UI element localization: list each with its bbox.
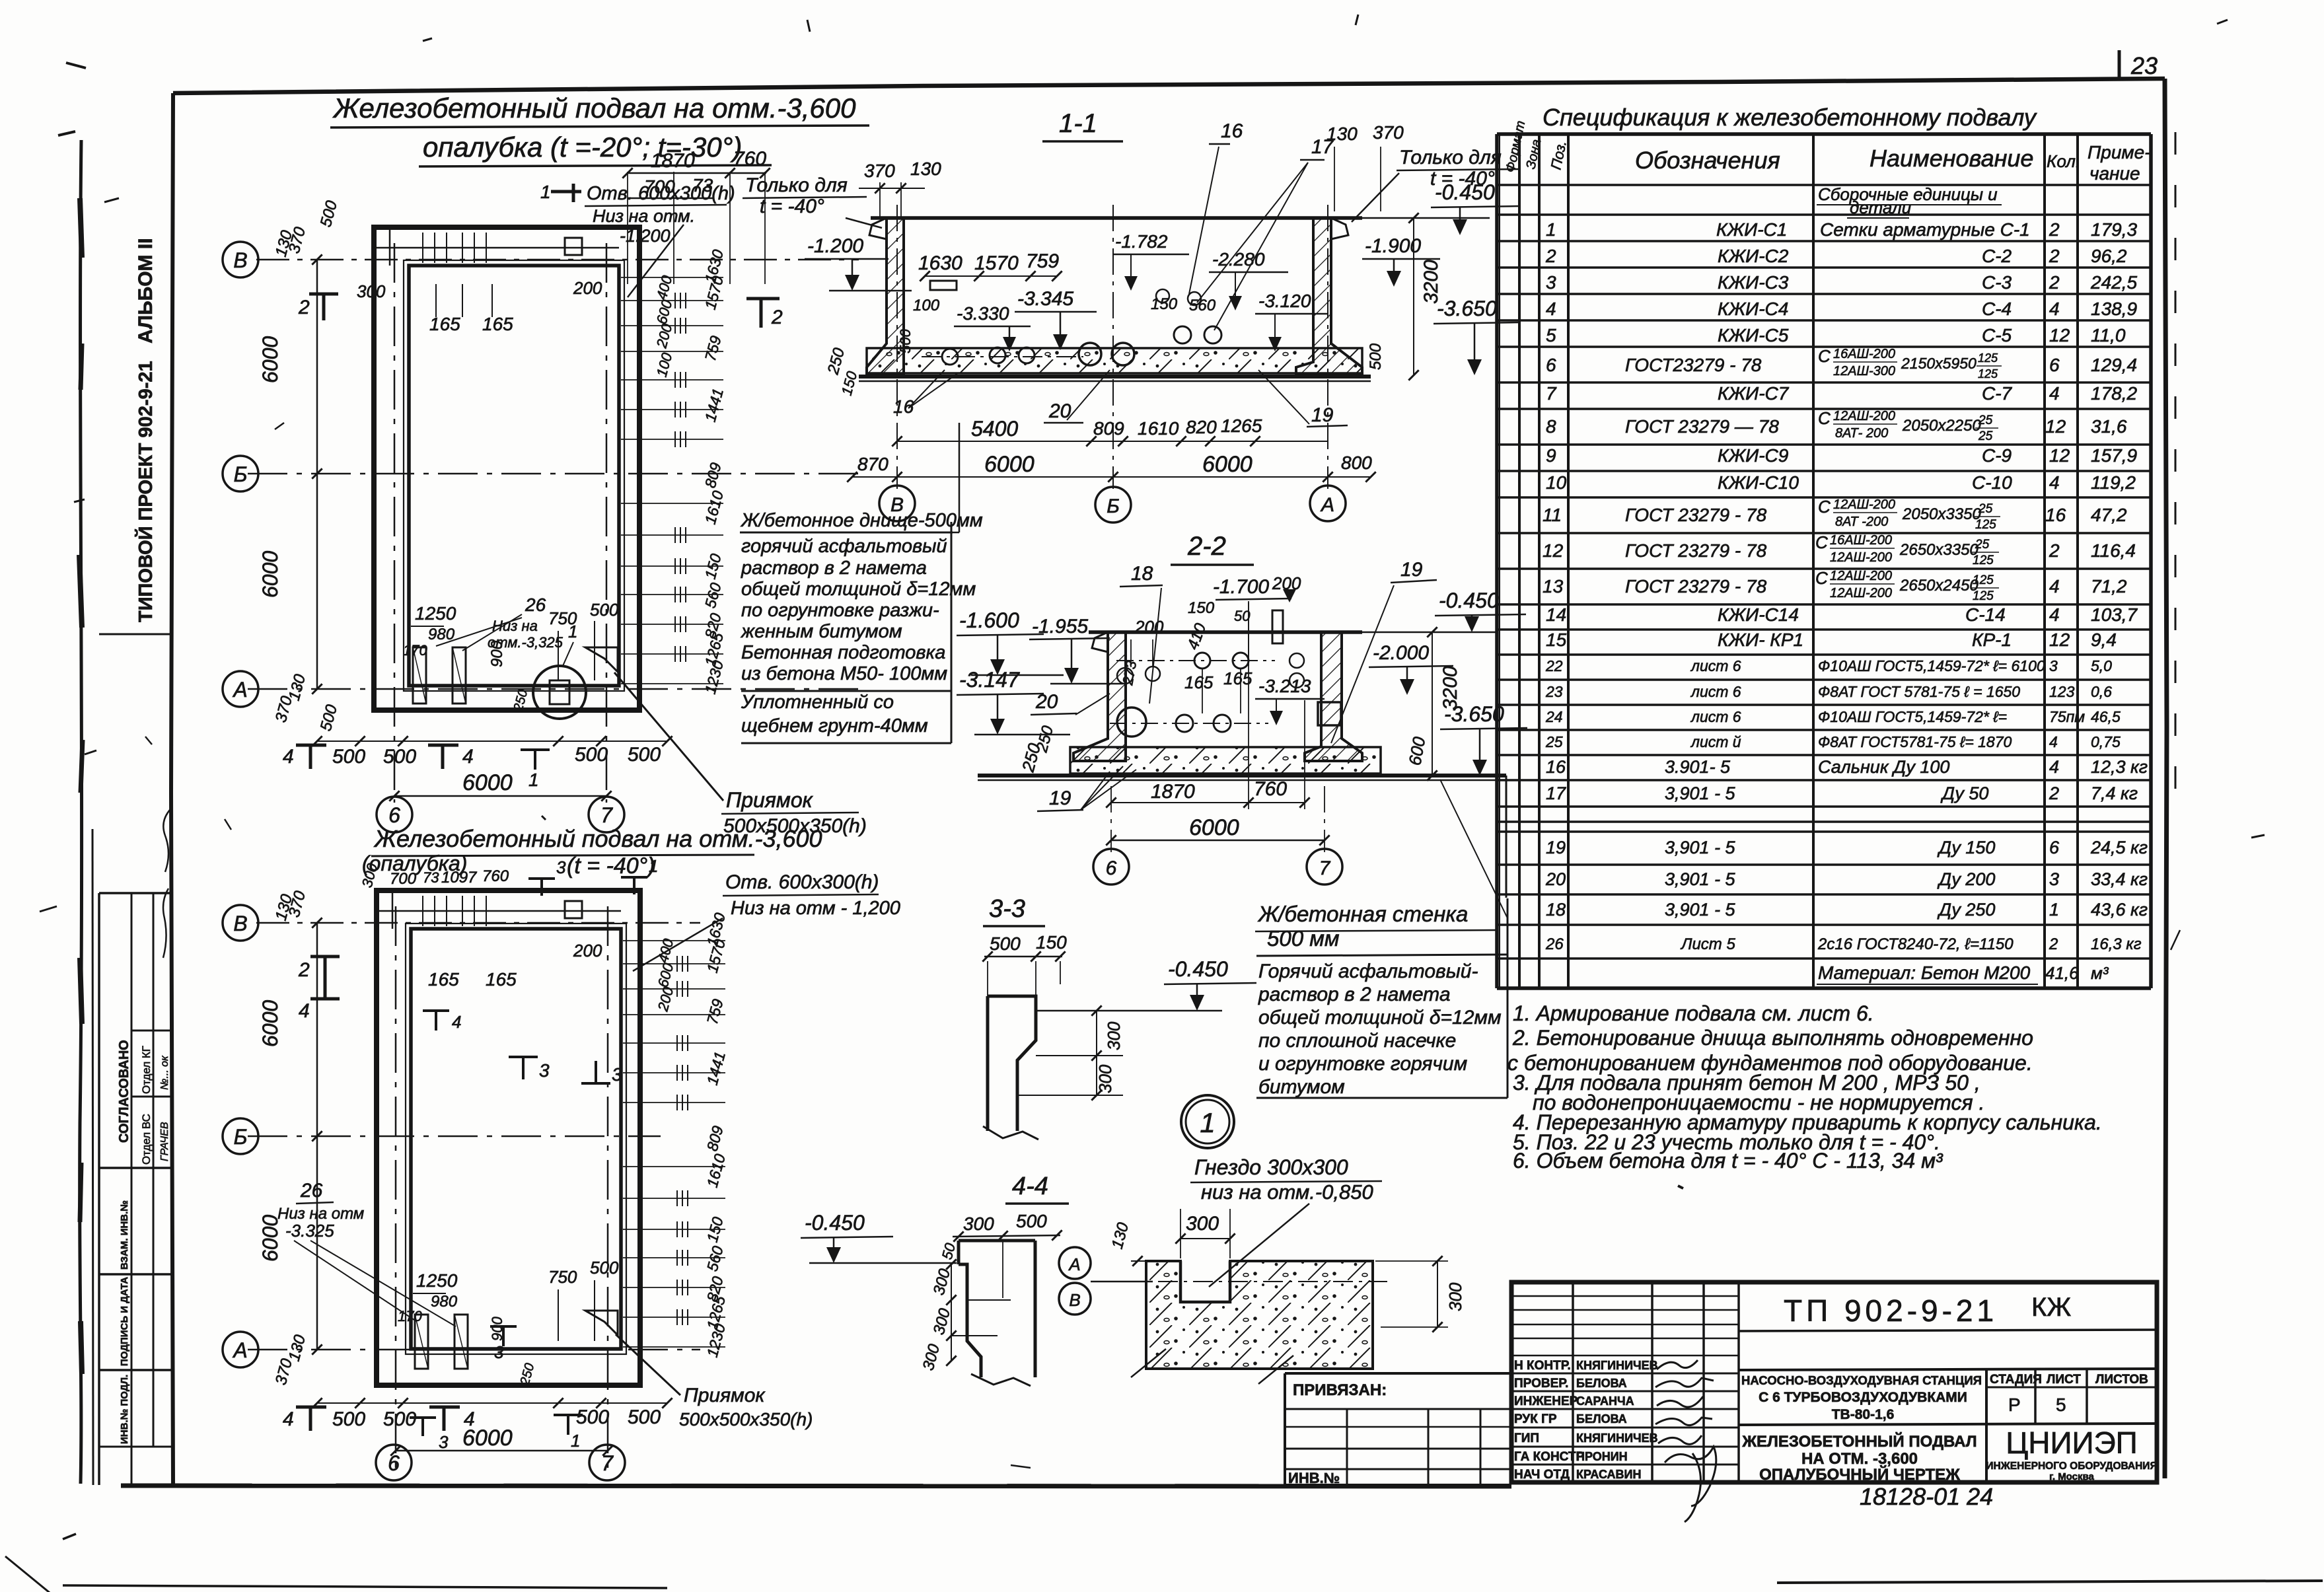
section 1-1 base line (859, 375, 1371, 379)
page frame top line (173, 79, 2165, 93)
svg-text:19: 19 (1311, 404, 1334, 426)
svg-text:ТП 902-9-21: ТП 902-9-21 (1784, 1293, 1998, 1328)
plan 2 outer wall (377, 890, 640, 1385)
svg-text:150: 150 (1151, 295, 1178, 313)
svg-text:300: 300 (963, 1213, 994, 1234)
svg-text:Лист 5: Лист 5 (1680, 935, 1735, 953)
svg-text:5,0: 5,0 (2091, 657, 2112, 674)
section 1-1 axis circle А (1310, 486, 1346, 521)
axis circle 7 plan2 bottom (589, 1445, 625, 1480)
section 2-2 dims 1870 760 (1111, 802, 1305, 803)
svg-text:6000: 6000 (1202, 452, 1253, 477)
svg-text:300: 300 (1186, 1213, 1219, 1235)
section 2-2 dash line interior (1110, 723, 1268, 724)
svg-text:2. Бетонирование днища: 2. Бетонирование днища выполнять одновре… (1512, 1026, 2033, 1050)
svg-text:-0.450: -0.450 (1439, 589, 1499, 612)
svg-text:9,4: 9,4 (2091, 630, 2117, 650)
svg-text:Ду 50: Ду 50 (1940, 783, 1988, 803)
plan 2 section marks 2 4 left (310, 957, 340, 982)
svg-text:100: 100 (913, 297, 940, 314)
svg-text:№... ок: №... ок (159, 1055, 170, 1090)
page frame right line (2165, 79, 2167, 1478)
svg-text:41,6: 41,6 (2045, 963, 2079, 983)
svg-text:17: 17 (1546, 783, 1566, 803)
svg-text:3: 3 (439, 1432, 449, 1452)
svg-text:лист й: лист й (1690, 733, 1741, 750)
svg-text:РУК ГР: РУК ГР (1514, 1412, 1557, 1426)
svg-text:300: 300 (1445, 1282, 1465, 1311)
svg-text:6000: 6000 (462, 1426, 513, 1451)
svg-text:18: 18 (1546, 900, 1566, 920)
svg-text:16АШ-200: 16АШ-200 (1833, 347, 1895, 361)
section 1-1 axis circle В (879, 486, 915, 521)
svg-text:Н КОНТР.: Н КОНТР. (1514, 1359, 1571, 1373)
svg-text:760: 760 (733, 148, 766, 170)
svg-text:16: 16 (2045, 505, 2066, 525)
svg-text:2: 2 (298, 297, 310, 318)
node 1 center dash line (1123, 1281, 1387, 1282)
svg-text:300: 300 (1095, 1064, 1115, 1093)
svg-text:6000: 6000 (258, 1000, 282, 1047)
svg-text:С: С (1818, 497, 1831, 517)
svg-text:щебнем грунт-40мм: щебнем грунт-40мм (741, 715, 928, 737)
plan 1 section mark 1 top (551, 184, 581, 202)
page frame left line (171, 93, 173, 1486)
svg-text:980: 980 (431, 1293, 458, 1311)
svg-text:760: 760 (1254, 778, 1287, 800)
axis circle В plan1 (223, 242, 258, 277)
svg-text:Уплотненный со: Уплотненный со (741, 692, 894, 713)
svg-text:0,75: 0,75 (2091, 733, 2121, 750)
plan 1 bottom dim 6000 (394, 795, 606, 797)
svg-text:КЖ: КЖ (2031, 1293, 2071, 1322)
plan 2 left dim 6000 lines (316, 923, 318, 1350)
svg-text:Ду 250: Ду 250 (1937, 900, 1995, 920)
svg-text:2: 2 (2049, 783, 2059, 803)
svg-text:2с16 ГОСТ8240-72, ℓ=1150: 2с16 ГОСТ8240-72, ℓ=1150 (1817, 935, 2014, 953)
svg-text:5: 5 (1546, 325, 1556, 345)
svg-text:С-9: С-9 (1982, 445, 2012, 466)
svg-text:370: 370 (1373, 122, 1404, 143)
node 1 circle badge (1181, 1095, 1234, 1148)
svg-text:раствор в 2 намета: раствор в 2 намета (741, 558, 927, 579)
svg-text:С-4: С-4 (1982, 299, 2012, 319)
svg-text:12АШ-200: 12АШ-200 (1830, 550, 1892, 565)
section 1-1 right wall hatched (1296, 218, 1362, 375)
svg-text:12: 12 (2045, 416, 2066, 437)
title block verticals (1572, 1282, 1574, 1482)
plan 1 axis line B (256, 259, 859, 261)
svg-text:3: 3 (556, 857, 566, 877)
svg-text:г. Москва: г. Москва (2049, 1471, 2094, 1482)
svg-text:7: 7 (600, 803, 613, 827)
svg-text:96,2: 96,2 (2091, 246, 2127, 266)
section 3-3 wall profile (988, 996, 1036, 1131)
svg-text:(t = -40°): (t = -40°) (567, 853, 655, 879)
svg-text:-3.325: -3.325 (285, 1221, 334, 1241)
svg-text:А: А (232, 1338, 247, 1362)
svg-text:165: 165 (486, 969, 517, 990)
wall note leader (1440, 779, 1507, 918)
svg-text:3: 3 (494, 1342, 504, 1362)
svg-text:горячий асфальтовый: горячий асфальтовый (741, 536, 947, 557)
spec table grid verticals (1495, 134, 1499, 988)
svg-text:170: 170 (403, 642, 427, 659)
svg-text:242,5: 242,5 (2090, 272, 2137, 293)
axis circle А plan2 (223, 1332, 258, 1367)
svg-text:2: 2 (2049, 935, 2058, 953)
svg-text:С-14: С-14 (1965, 604, 2006, 625)
svg-text:12: 12 (2049, 630, 2070, 650)
svg-text:Отв. 600х300(h): Отв. 600х300(h) (725, 871, 879, 893)
svg-text:лист 6: лист 6 (1690, 683, 1741, 700)
svg-text:В: В (233, 912, 247, 935)
svg-text:-0.450: -0.450 (805, 1211, 865, 1235)
svg-text:Низ на отм - 1,200: Низ на отм - 1,200 (731, 898, 900, 919)
svg-text:С: С (1815, 532, 1828, 552)
svg-text:6: 6 (2049, 838, 2060, 857)
svg-text:Сетки арматурные С-1: Сетки арматурные С-1 (1820, 219, 2030, 240)
svg-text:300: 300 (357, 281, 386, 301)
svg-text:3: 3 (2049, 869, 2059, 889)
svg-text:500 мм: 500 мм (1267, 926, 1339, 951)
svg-text:ГОСТ 23279 - 78: ГОСТ 23279 - 78 (1625, 540, 1767, 561)
side stamp ВЗАМ.ИНВ.№ cell (99, 1167, 172, 1169)
svg-text:170: 170 (398, 1308, 422, 1324)
bottom-right paper edge line (1777, 1581, 2323, 1583)
svg-text:5400: 5400 (971, 417, 1018, 441)
svg-text:73: 73 (423, 869, 439, 886)
svg-text:200: 200 (1134, 617, 1164, 637)
frame bottom-left long line (121, 1486, 1511, 1486)
svg-text:С-2: С-2 (1982, 246, 2012, 266)
svg-text:Горячий асфальтовый-: Горячий асфальтовый- (1258, 960, 1478, 982)
svg-text:Низ на отм: Низ на отм (277, 1205, 364, 1223)
svg-text:12: 12 (2049, 325, 2070, 345)
svg-text:НАЧ ОТД: НАЧ ОТД (1514, 1468, 1570, 1482)
svg-text:из бетона М50- 100мм: из бетона М50- 100мм (741, 663, 947, 684)
svg-text:Отдел КГ: Отдел КГ (140, 1046, 153, 1094)
svg-text:13: 13 (1543, 576, 1564, 597)
svg-text:10: 10 (1546, 472, 1567, 493)
axis circle В plan2 (223, 905, 258, 941)
plan 1 bottom-left pit rectangles (413, 647, 426, 704)
section 2-2 base line (978, 774, 1506, 778)
svg-text:47,2: 47,2 (2091, 505, 2127, 525)
svg-text:26: 26 (1545, 935, 1564, 953)
section 1-1 section mark 2 left (746, 299, 780, 328)
svg-text:15: 15 (1546, 630, 1567, 650)
svg-text:Ф8АТ ГОСТ5781-75 ℓ= 1870: Ф8АТ ГОСТ5781-75 ℓ= 1870 (1818, 733, 2012, 750)
svg-text:ГОСТ 23279 - 78: ГОСТ 23279 - 78 (1625, 576, 1767, 597)
svg-text:116,4: 116,4 (2091, 540, 2136, 561)
svg-text:760: 760 (482, 867, 509, 885)
svg-text:12: 12 (1543, 540, 1564, 561)
svg-text:-3.330: -3.330 (957, 303, 1009, 324)
svg-text:500х500х350(h): 500х500х350(h) (679, 1409, 813, 1429)
svg-text:103,7: 103,7 (2091, 604, 2138, 625)
sidebar divider (99, 633, 172, 635)
svg-text:БЕЛОВА: БЕЛОВА (1576, 1377, 1627, 1390)
svg-text:1: 1 (528, 770, 539, 790)
svg-text:-1.700: -1.700 (1213, 576, 1269, 598)
svg-text:Б: Б (234, 462, 248, 486)
svg-text:200: 200 (573, 941, 602, 960)
scan fold line left edge (80, 140, 82, 1484)
svg-text:СТАДИЯ: СТАДИЯ (1990, 1373, 2042, 1387)
svg-text:1870: 1870 (651, 150, 695, 172)
plan 2 formwork inner line (406, 923, 626, 1354)
svg-text:300: 300 (1104, 1021, 1124, 1050)
svg-text:КРАСАВИН: КРАСАВИН (1576, 1468, 1641, 1481)
svg-text:6: 6 (388, 803, 400, 827)
svg-text:1. Армирование подвала: 1. Армирование подвала см. лист 6. (1513, 1001, 1874, 1025)
plan 2 axis line А (248, 1349, 700, 1351)
svg-text:-1.782: -1.782 (1115, 231, 1168, 252)
svg-text:125: 125 (1973, 589, 1994, 603)
svg-text:130: 130 (1326, 124, 1358, 144)
bottom-left paper corner cut (5, 1556, 71, 1592)
svg-text:КЖИ-С10: КЖИ-С10 (1718, 472, 1799, 493)
svg-text:-0.450: -0.450 (1168, 957, 1228, 981)
svg-text:Ж/бетонная стенка: Ж/бетонная стенка (1257, 902, 1468, 926)
svg-text:500: 500 (332, 746, 365, 768)
svg-text:С-5: С-5 (1982, 325, 2012, 345)
svg-text:ЖЕЛЕЗОБЕТОННЫЙ ПОДВАЛ: ЖЕЛЕЗОБЕТОННЫЙ ПОДВАЛ (1741, 1432, 1977, 1451)
svg-text:3: 3 (2049, 657, 2058, 674)
svg-text:-3.147: -3.147 (959, 668, 1020, 692)
svg-text:С: С (1815, 568, 1828, 588)
section 1-1 wall axis dash lines (896, 205, 898, 489)
svg-text:12: 12 (2049, 445, 2070, 466)
svg-text:23: 23 (2130, 52, 2158, 79)
svg-text:2: 2 (2049, 219, 2060, 240)
svg-text:46,5: 46,5 (2091, 708, 2121, 725)
svg-text:С: С (1818, 346, 1831, 366)
plan 1 formwork inner line (404, 260, 624, 691)
svg-text:А: А (232, 678, 247, 702)
svg-text:КЖИ-С4: КЖИ-С4 (1718, 299, 1788, 319)
svg-text:6. Объем бетона для t = - 4: 6. Объем бетона для t = - 40° С - 113, 3… (1513, 1149, 1943, 1173)
svg-text:КЖИ- КР1: КЖИ- КР1 (1718, 630, 1803, 650)
plan 2 interior section mark 3 (509, 1057, 538, 1079)
svg-text:3.901- 5: 3.901- 5 (1665, 757, 1731, 777)
svg-text:1250: 1250 (416, 1270, 458, 1291)
svg-text:КР-1: КР-1 (1972, 630, 2012, 650)
svg-text:0,6: 0,6 (2091, 683, 2112, 700)
svg-text:6: 6 (2049, 355, 2060, 375)
plan 2 top section marks 3 1 (528, 879, 555, 896)
svg-text:870: 870 (857, 454, 889, 474)
svg-text:6000: 6000 (1189, 815, 1239, 840)
plan 2 приямок leader (616, 1334, 680, 1395)
svg-text:Ф8АТ ГОСТ 5781-75 ℓ = 1650: Ф8АТ ГОСТ 5781-75 ℓ = 1650 (1818, 683, 2020, 700)
svg-text:6: 6 (388, 1451, 400, 1475)
title block outer frame (1511, 1282, 2157, 1482)
svg-text:Б: Б (234, 1125, 248, 1149)
svg-text:по огрунтовке разжи-: по огрунтовке разжи- (741, 600, 939, 621)
svg-text:18128-01 24: 18128-01 24 (1860, 1483, 1993, 1510)
svg-text:25: 25 (1975, 538, 1990, 552)
svg-text:4: 4 (2049, 733, 2058, 750)
svg-text:26: 26 (300, 1180, 323, 1202)
svg-text:19: 19 (1546, 838, 1566, 857)
svg-text:6: 6 (1106, 857, 1117, 879)
plan 2 right dimension ladder (623, 940, 725, 941)
svg-text:раствор в 2 намета: раствор в 2 намета (1258, 984, 1451, 1005)
bottom-left paper edge line (63, 1585, 667, 1588)
svg-text:КЖИ-С3: КЖИ-С3 (1718, 272, 1789, 293)
ПРИВЯЗАН box inner lines (1285, 1408, 1511, 1410)
svg-text:ИНВ.№: ИНВ.№ (1288, 1470, 1340, 1486)
svg-text:ТИПОВОЙ ПРОЕКТ 902-9-21: ТИПОВОЙ ПРОЕКТ 902-9-21 (134, 361, 157, 622)
svg-text:9: 9 (1546, 445, 1556, 466)
svg-text:1630: 1630 (918, 252, 962, 274)
svg-text:общей толщиной δ=12мм: общей толщиной δ=12мм (1258, 1007, 1502, 1029)
svg-text:20: 20 (1545, 869, 1566, 889)
svg-text:Только для: Только для (1399, 147, 1502, 168)
svg-text:165: 165 (1184, 672, 1214, 692)
svg-text:КЖИ-С9: КЖИ-С9 (1718, 445, 1788, 466)
svg-text:КЖИ-С1: КЖИ-С1 (1716, 219, 1787, 240)
section 1-1 floor slab concrete (867, 348, 1362, 373)
section 3-3 dims 300 300 (1096, 1011, 1097, 1095)
svg-text:1: 1 (1200, 1107, 1215, 1138)
svg-text:Обозначения: Обозначения (1635, 147, 1780, 174)
svg-text:В: В (1069, 1290, 1080, 1310)
svg-text:1570: 1570 (974, 252, 1019, 274)
svg-text:4: 4 (2049, 757, 2059, 777)
svg-text:12АШ-200: 12АШ-200 (1833, 497, 1895, 512)
svg-text:С: С (1818, 408, 1831, 428)
svg-text:ИНВ.№ ПОДЛ.: ИНВ.№ ПОДЛ. (119, 1375, 130, 1444)
svg-text:ГОСТ 23279 - 78: ГОСТ 23279 - 78 (1625, 505, 1767, 525)
svg-text:НАСОСНО-ВОЗДУХОДУВНАЯ СТАНЦИЯ: НАСОСНО-ВОЗДУХОДУВНАЯ СТАНЦИЯ (1741, 1373, 1982, 1387)
svg-text:16: 16 (1546, 757, 1566, 777)
svg-text:С-3: С-3 (1982, 272, 2012, 293)
svg-text:Бетонная подготовка: Бетонная подготовка (741, 642, 945, 663)
svg-text:179,3: 179,3 (2091, 219, 2137, 240)
svg-text:ЛИСТОВ: ЛИСТОВ (2095, 1373, 2148, 1387)
section 2-2 right connector line (1506, 776, 1507, 898)
section 2-2 dim 6000 (1111, 840, 1325, 842)
svg-text:3: 3 (612, 1064, 622, 1085)
svg-text:1: 1 (571, 1431, 580, 1451)
svg-text:25: 25 (1545, 733, 1563, 750)
section 2-2 floor slab concrete (1070, 747, 1381, 774)
svg-text:2150х5950: 2150х5950 (1901, 355, 1977, 372)
svg-text:2: 2 (2049, 246, 2060, 266)
svg-text:С 6 ТУРБОВОЗДУХОДУВКАМИ: С 6 ТУРБОВОЗДУХОДУВКАМИ (1759, 1390, 1967, 1405)
title block horizontals left column (1511, 1295, 1739, 1297)
svg-text:157,9: 157,9 (2091, 445, 2137, 466)
svg-text:500: 500 (628, 744, 661, 766)
svg-text:1: 1 (1546, 219, 1556, 240)
svg-text:23: 23 (1545, 683, 1563, 700)
svg-text:3-3: 3-3 (989, 895, 1025, 923)
svg-text:С-7: С-7 (1982, 383, 2013, 404)
svg-text:общей толщиной δ=12мм: общей толщиной δ=12мм (741, 579, 976, 600)
section 1-1 axis circle Б (1095, 487, 1131, 523)
svg-text:СОГЛАСОВАНО: СОГЛАСОВАНО (117, 1040, 131, 1143)
section 2-2 ceiling top line (1089, 630, 1362, 634)
svg-text:САРАНЧА: САРАНЧА (1576, 1394, 1634, 1408)
svg-text:500: 500 (990, 933, 1021, 954)
svg-text:8АТ -200: 8АТ -200 (1835, 515, 1888, 529)
svg-text:125: 125 (1975, 518, 1996, 532)
plan 2 axis 6 line (395, 906, 397, 1473)
spec table grid horizontals (1497, 132, 2151, 136)
svg-text:33,4 кг: 33,4 кг (2091, 869, 2148, 889)
side stamp ПОДПИСЬ И ДАТА cell (99, 1273, 172, 1276)
svg-text:900: 900 (489, 1317, 505, 1341)
axis circle А plan1 (223, 671, 258, 707)
svg-text:-1.955: -1.955 (1032, 616, 1088, 637)
svg-text:t = -40°: t = -40° (760, 196, 824, 217)
svg-text:125: 125 (1978, 367, 1998, 380)
svg-text:3: 3 (1546, 272, 1556, 293)
node 1 right dim 300 (1437, 1261, 1438, 1327)
svg-text:130: 130 (910, 159, 941, 179)
svg-text:-1.900: -1.900 (1365, 235, 1421, 257)
svg-text:8: 8 (1546, 416, 1556, 437)
svg-text:4: 4 (2049, 604, 2060, 625)
svg-text:Только для: Только для (745, 174, 848, 196)
svg-text:2: 2 (1545, 246, 1556, 266)
section 2-2 left wall hatched (1073, 632, 1126, 761)
svg-text:2: 2 (2049, 540, 2060, 561)
svg-text:Низ на отм.: Низ на отм. (593, 206, 695, 226)
plan 2 inner wall face (411, 929, 621, 1349)
svg-text:25: 25 (1978, 502, 1993, 516)
section 2-2 right side rect detail (1318, 702, 1341, 725)
svg-text:м³: м³ (2091, 963, 2109, 983)
svg-text:ВЗАМ. ИНВ.№: ВЗАМ. ИНВ.№ (119, 1200, 130, 1270)
node 1 bottom slope ticks (1131, 1349, 1166, 1377)
svg-text:500: 500 (628, 1406, 661, 1428)
svg-text:ЛИСТ: ЛИСТ (2047, 1373, 2081, 1387)
svg-text:-3.650: -3.650 (1437, 297, 1497, 320)
svg-text:БЕЛОВА: БЕЛОВА (1576, 1412, 1627, 1426)
section 1-1 left wall hatched (867, 218, 904, 375)
svg-text:500: 500 (590, 1258, 619, 1278)
svg-text:ИНЖЕНЕРНОГО ОБОРУДОВАНИЯ: ИНЖЕНЕРНОГО ОБОРУДОВАНИЯ (1986, 1461, 2157, 1472)
svg-text:4: 4 (2049, 472, 2060, 493)
svg-text:809: 809 (1093, 418, 1124, 439)
svg-text:и огрунтовке горячим: и огрунтовке горячим (1258, 1053, 1467, 1075)
svg-text:370: 370 (864, 161, 895, 181)
svg-text:165: 165 (429, 314, 460, 334)
svg-text:-1.200: -1.200 (807, 235, 863, 257)
svg-text:Приямок: Приямок (726, 788, 814, 812)
svg-text:11,0: 11,0 (2091, 325, 2126, 345)
svg-text:4: 4 (2049, 383, 2060, 404)
svg-text:Ду 200: Ду 200 (1937, 869, 1995, 889)
page number tick (2118, 50, 2121, 78)
svg-text:178,2: 178,2 (2091, 383, 2137, 404)
svg-text:125: 125 (1973, 554, 1994, 567)
svg-text:Б: Б (1107, 495, 1120, 517)
plan 1 hole leader (628, 225, 684, 297)
plan 1 top dim chain 1870 760 (628, 172, 766, 174)
svg-text:119,2: 119,2 (2091, 472, 2136, 493)
title block big cell dividers (1739, 1330, 2157, 1331)
svg-text:ПРИВЯЗАН:: ПРИВЯЗАН: (1293, 1381, 1387, 1399)
svg-text:С-10: С-10 (1972, 472, 2012, 493)
title block signatures (1657, 1360, 1698, 1369)
svg-text:22: 22 (1545, 657, 1563, 674)
svg-text:КЖИ-С5: КЖИ-С5 (1718, 325, 1789, 345)
